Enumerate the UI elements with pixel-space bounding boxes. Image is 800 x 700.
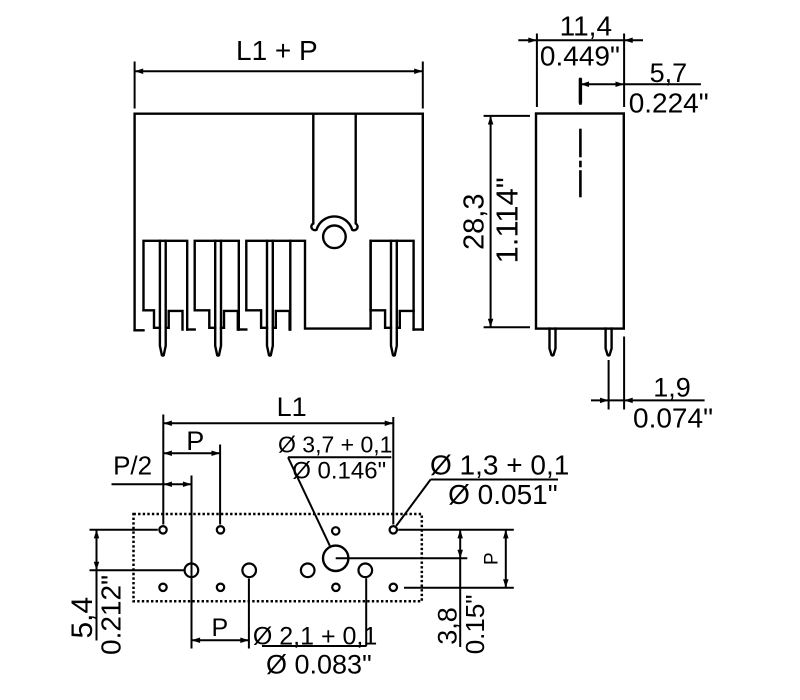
dimension P (bottom view top) xyxy=(163,445,220,525)
svg-text:0.449": 0.449" xyxy=(540,41,620,72)
hole A3 (1.3) xyxy=(332,527,339,534)
arrows L1+P xyxy=(135,68,144,74)
leader for hole 2,1 xyxy=(262,578,367,646)
leader for hole 1,3 xyxy=(396,480,558,526)
arrows P bottom xyxy=(192,638,201,644)
svg-text:Ø 3,7 + 0,1: Ø 3,7 + 0,1 xyxy=(278,431,392,457)
side view body xyxy=(536,114,624,329)
arrows 5,4 xyxy=(94,530,100,539)
dimension 11,4 (side top) xyxy=(518,34,643,108)
arrows 28,3 xyxy=(488,116,494,125)
svg-text:P/2: P/2 xyxy=(113,451,152,481)
hole A4 (1.3) xyxy=(390,526,397,533)
arrows 5,7 xyxy=(580,82,589,88)
dimension 1,9 (side bottom) xyxy=(591,337,705,410)
front bottom edge segments xyxy=(135,328,423,331)
svg-text:Ø 0.083": Ø 0.083" xyxy=(266,650,372,680)
front view body outline xyxy=(135,114,423,331)
5,7 center tick xyxy=(579,79,582,104)
svg-text:P: P xyxy=(186,426,204,456)
tooth block 3 xyxy=(246,241,290,330)
dimension P (bottom view bottom) xyxy=(192,579,249,649)
hole B4 (2.1) xyxy=(359,564,373,578)
hole D2 (1.3) xyxy=(217,584,224,591)
hole B2 (2.1) xyxy=(242,564,256,578)
bottom view drilling plan xyxy=(134,514,422,601)
svg-text:Ø 1,3 + 0,1: Ø 1,3 + 0,1 xyxy=(430,449,569,480)
dimension P/2 xyxy=(112,476,192,649)
front view top slot with arc bottom xyxy=(311,114,357,231)
svg-text:Ø 2,1 + 0,1: Ø 2,1 + 0,1 xyxy=(253,622,377,650)
dimension L1+P (front top) xyxy=(135,62,423,109)
svg-text:L1: L1 xyxy=(277,392,307,422)
svg-text:5,7: 5,7 xyxy=(650,58,688,88)
hole C (3.7) xyxy=(323,546,348,571)
arrows 1,9 (outside) xyxy=(600,398,609,404)
arrows P top xyxy=(163,451,172,457)
svg-text:0.074": 0.074" xyxy=(633,403,713,434)
side view pin left xyxy=(550,329,556,356)
svg-text:0.15": 0.15" xyxy=(460,594,490,654)
pin 1 (front) xyxy=(160,241,166,356)
drilling outline (dotted) xyxy=(134,514,422,601)
svg-text:0.224": 0.224" xyxy=(629,87,709,118)
svg-text:P: P xyxy=(482,552,503,565)
hole D3 (1.3) xyxy=(332,584,339,591)
hole A1 (1.3) xyxy=(159,526,166,533)
dimension 3,8 (bottom right) xyxy=(336,530,514,647)
pin 3 (front) xyxy=(267,241,273,356)
svg-text:1.114": 1.114" xyxy=(490,177,525,263)
svg-text:Ø 0.146": Ø 0.146" xyxy=(292,457,386,484)
arrows P vertical xyxy=(503,530,509,539)
hole D1 (1.3) xyxy=(159,584,166,591)
arrows L1 xyxy=(163,420,172,426)
pin 4 (front) xyxy=(391,241,397,356)
pin 2 (front) xyxy=(215,241,221,356)
dimension 5,7 (side) xyxy=(580,83,701,85)
dimension L1 (bottom view) xyxy=(163,415,393,525)
hole D4 (1.3) xyxy=(390,584,397,591)
svg-text:28,3: 28,3 xyxy=(459,194,491,250)
tooth block 2 xyxy=(195,241,239,330)
svg-text:1,9: 1,9 xyxy=(653,372,691,402)
front view latch circle xyxy=(323,226,346,249)
svg-text:P: P xyxy=(212,614,229,642)
svg-text:L1 + P: L1 + P xyxy=(236,35,318,66)
hole B1 (2.1) xyxy=(185,564,199,578)
center bay under latch xyxy=(290,241,370,329)
arrows 11,4 (outside) xyxy=(528,37,537,43)
svg-text:3,8: 3,8 xyxy=(432,607,462,645)
arrows 3,8 xyxy=(457,530,463,539)
tooth block 1 xyxy=(144,241,188,330)
dimension P (bottom view right, vertical) xyxy=(404,530,514,588)
dimension 5,4 (bottom left) xyxy=(90,530,185,641)
svg-text:5,4: 5,4 xyxy=(66,597,99,639)
tooth block 4 xyxy=(371,241,414,330)
svg-text:0.212": 0.212" xyxy=(96,575,127,655)
side view pin right xyxy=(606,329,612,356)
dimension 28,3 (side left) xyxy=(484,116,530,327)
hole A2 (1.3) xyxy=(217,526,224,533)
svg-text:Ø 0.051": Ø 0.051" xyxy=(448,479,558,510)
svg-text:11,4: 11,4 xyxy=(560,10,612,41)
arrowheads xyxy=(94,37,633,643)
side view center line (dash-dot) xyxy=(579,79,582,196)
leader for hole 3,7 xyxy=(288,457,391,545)
hole B3 (2.1) xyxy=(301,564,315,578)
arrows P/2 xyxy=(163,481,172,487)
